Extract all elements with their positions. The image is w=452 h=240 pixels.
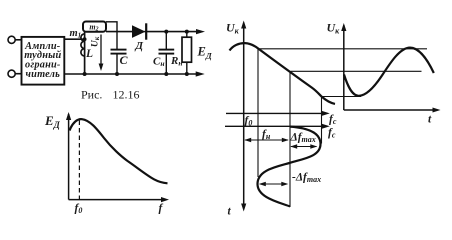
level line: bottom (Uk min) [321,96,361,98]
discriminator S-curve [230,43,336,104]
axis f (horizontal) [69,199,166,201]
dimension arrow -Δf max [260,183,287,185]
junction dot: Cн top [164,30,168,34]
wire: bottom terminal to limiter box [15,73,21,75]
junction dot: C bottom [115,72,119,76]
resistor Rн [186,32,188,38]
level line: top (Uk max) [260,48,427,50]
input terminal (top) [8,36,15,43]
secondary winding m2 (boxed) [83,22,106,32]
detector response curve [70,119,168,183]
wire: m2 to diode [106,31,134,33]
vertical construction line at f0+Δf [321,97,323,144]
wire: m2 box top to capacitor C [106,22,117,50]
axis Uk (vertical) [343,25,345,110]
dimension arrow fн [245,139,288,141]
vertical construction line at carrier fc [289,71,291,207]
junction dot: coil bottom [83,72,87,76]
output sinusoid [344,48,434,96]
f axis (lower, t=0 line of FM input) [225,125,327,127]
FM input sinusoid (sideways, time going down) [258,127,321,207]
capacitor C [111,49,127,51]
diode Д [132,25,146,38]
input terminal (bottom) [8,70,15,77]
dimension arrow Δf max [291,146,317,148]
svg-text:читель: читель [26,69,61,80]
level line: carrier (mid) [291,70,422,72]
wire: top terminal to limiter box [15,39,21,41]
voltage arrow Uk across coil [100,35,102,65]
coil L (vertical line with bumps on left) [84,32,86,75]
axis Uk / t (vertical, arrow both ends) [243,23,245,209]
svg-text:L: L [85,48,93,60]
amplitude limiter block [22,37,65,85]
dashed line at f0 [78,121,80,200]
output arrow (top) [196,29,205,34]
output arrow (bottom) [196,71,205,76]
capacitor Cн [165,32,167,50]
junction dot: Cн bottom [164,72,168,76]
axis EД (vertical) [68,114,70,200]
f axis (upper) [226,112,327,114]
bottom wire [64,73,197,75]
wire: limiter to coil tap m1 [64,38,84,40]
wire: diode to output (top) [144,31,198,33]
vertical construction line at f0-Δf [257,49,259,177]
junction dot: Rн top [185,30,189,34]
junction: tap point on coil [83,37,87,41]
junction dot: Rн bottom [185,72,189,76]
axis t (horizontal) [344,109,438,111]
svg-text:C: C [120,53,129,67]
svg-text:Д: Д [135,40,144,52]
